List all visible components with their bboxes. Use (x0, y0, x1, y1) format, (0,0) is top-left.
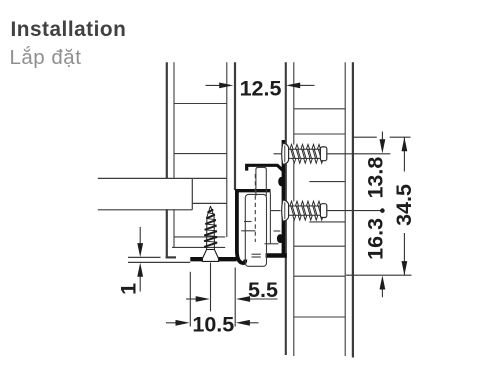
title VI (10, 46, 82, 70)
svg-text:34.5: 34.5 (392, 184, 416, 226)
dim 13.8 top arrow (381, 132, 383, 142)
extension line x 235 (234, 268, 236, 327)
screw 2 thread (289, 206, 321, 215)
clip tick b (241, 230, 255, 232)
dim 12.5 right arrow (299, 84, 315, 86)
cabinet rail outer-right thick (352, 62, 354, 357)
runner profile bottom thin lip (128, 261, 190, 263)
clip upper arm rounded (256, 167, 266, 196)
clip bump lower (277, 234, 284, 243)
screw2 center line left stub (271, 210, 281, 212)
dim 16.3 bottom arrow (381, 288, 383, 298)
screw 2 head (282, 200, 289, 221)
dim 1 top arrow (139, 227, 141, 245)
short ref line for 1 dim (128, 256, 161, 258)
cabinet rail hole line 2 (294, 133, 346, 135)
drawer panel groove line upper (174, 236, 225, 238)
svg-text:13.8: 13.8 (363, 157, 387, 199)
drawer bottom tongue bottom edge (192, 202, 227, 204)
screw2 center line right / shared extension (326, 210, 381, 212)
screw 1 head (282, 144, 289, 165)
cabinet rail inner-left thin (293, 62, 295, 356)
drawer side panel bottom foot thick (166, 256, 176, 258)
drawer side panel outer-right thick (234, 62, 236, 190)
dim 34.5 bottom arrow (402, 261, 408, 275)
dim 10.5 left arrow (166, 322, 179, 324)
runner profile top hook (247, 165, 283, 170)
screw1 center line right / 13.8 top extension (327, 153, 391, 155)
drawer panel groove line lower (172, 246, 225, 248)
clip right wall (269, 192, 271, 243)
drawer bottom panel bottom edge (98, 209, 193, 211)
clip tick c (265, 243, 279, 245)
screw 3 vertical (into drawer bottom) (202, 206, 218, 261)
screw 2 horizontal lower (282, 200, 327, 221)
runner cabinet-side vertical bar (282, 140, 285, 258)
drawer side panel outer-left thick (166, 62, 168, 258)
cabinet rail inner-right thin (344, 62, 346, 356)
runner profile bottom thick bar (190, 257, 236, 261)
svg-text:1: 1 (117, 283, 141, 295)
drawer bottom panel right edge (191, 178, 193, 209)
screw1 center line left stub (274, 153, 282, 155)
dim 1 bottom arrow (139, 275, 141, 292)
screw 3 thread flanges (204, 210, 217, 247)
title EN (11, 18, 127, 42)
screw 2 tip cap (320, 204, 326, 218)
clip tick d (274, 230, 281, 232)
runner cabinet-side foot (266, 253, 287, 257)
clip equals mark 1 (252, 253, 261, 255)
extension line x 210.5 (210, 263, 212, 312)
cabinet rail rung 5 (294, 316, 346, 318)
clip body rounded rect (245, 194, 266, 266)
screw 1 tip cap (320, 147, 326, 161)
clip tick a (244, 221, 252, 223)
dim 34.5 line top segment (403, 137, 405, 171)
dim 5.5 left arrow (186, 298, 198, 300)
drawer side panel inner-left thin (173, 62, 175, 247)
clip equals mark 2 (252, 256, 261, 258)
top reference line segment b (390, 136, 411, 138)
cabinet rail hole line 1 (294, 108, 346, 110)
svg-text:16.3: 16.3 (363, 218, 387, 260)
dim 10.5 right arrow (247, 322, 259, 324)
drawer side panel rung 1 (174, 103, 227, 105)
dot joint 13.8/16.3 (380, 208, 385, 213)
cabinet rail slot line top (309, 181, 345, 183)
screw 3 thread back edges (204, 213, 217, 243)
screw 1 horizontal upper (282, 144, 327, 165)
cabinet rail slot line bottom (309, 221, 345, 223)
clip hidden dashed line (254, 174, 256, 242)
svg-text:10.5: 10.5 (192, 312, 234, 336)
runner profile J vertical (237, 189, 245, 263)
cabinet rail rung 4 (294, 275, 346, 277)
drawer bottom panel top edge (98, 177, 193, 179)
cabinet rail outer-left thin (285, 62, 287, 355)
bottom reference line (346, 274, 412, 276)
drawer bottom tongue top edge (192, 177, 227, 179)
top reference line segment a (353, 136, 377, 138)
clip bump upper (278, 177, 284, 186)
drawer side panel rung 2 (174, 153, 227, 155)
screw 3 head (202, 250, 218, 262)
svg-text:5.5: 5.5 (248, 278, 278, 302)
dim 34.5 top arrow (402, 137, 408, 151)
drawer side panel inner-right thin (226, 62, 228, 237)
dim 12.5 left arrow (206, 84, 223, 86)
svg-text:12.5: 12.5 (240, 76, 282, 100)
dim 5.5 right arrow (249, 298, 278, 300)
drawer bottom panel white fill (98, 179, 193, 209)
screw 3 core (207, 206, 215, 250)
cabinet rail rung 3 (294, 245, 346, 247)
dim 34.5 line bottom segment (403, 233, 405, 275)
runner profile middle step (235, 189, 270, 192)
screw 1 thread (289, 149, 321, 158)
extension line x 190 (189, 272, 191, 327)
